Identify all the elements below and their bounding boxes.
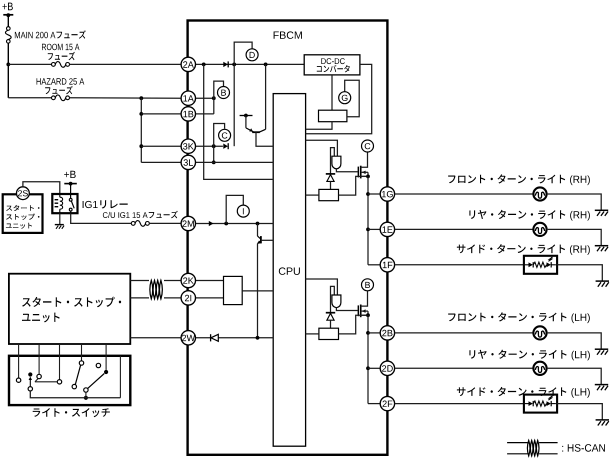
MOSFET source wire (361, 314, 368, 316)
wire regulator to CPU (306, 122, 332, 130)
wire branch to pin 3K (141, 145, 181, 147)
terminal 2A (181, 57, 195, 71)
node 3K (212, 144, 216, 148)
wire 1F to LED (395, 264, 524, 266)
label light switch (33, 408, 110, 417)
label IG1 relay (83, 200, 128, 208)
wire LED to ground (557, 404, 602, 420)
wire branch down to 3L (140, 98, 142, 162)
lamp フロント・ターン・ライト (RH) (533, 187, 546, 200)
wire hook to C (214, 124, 225, 147)
wire DC-DC output to CPU (306, 64, 372, 133)
wire 2K inside (196, 280, 224, 282)
wire resistor to source (339, 176, 367, 195)
wire resistor to CPU (306, 333, 319, 335)
transistor Q2 (257, 236, 261, 244)
wire 2D to lamp (395, 367, 534, 369)
net label C (219, 129, 231, 141)
wire 2M to CPU (196, 223, 274, 225)
wire to HAZARD fuse (8, 97, 51, 99)
switch contacts (16, 361, 100, 392)
terminal 2S (17, 187, 30, 200)
wire ROOM fuse to pin 2A (69, 63, 181, 65)
wire unit to 2K (130, 280, 181, 282)
label サイド・ターン・ライト (RH) (457, 244, 590, 255)
wire resistor to CPU (306, 194, 319, 196)
terminal 1G (380, 187, 394, 201)
wire CPU to gate driver input (306, 140, 338, 156)
switch blade B (88, 374, 105, 389)
label CPU (279, 267, 300, 275)
label リヤ・ターン・ライト (RH) (469, 210, 589, 221)
start-stop unit box (9, 274, 130, 344)
internal tap node (240, 114, 253, 118)
fuse C/U IG1 15A (103, 211, 178, 226)
node 2M-a (224, 222, 228, 226)
node output rail junction (366, 331, 370, 335)
gate driver U1 (332, 156, 341, 169)
MOSFET source wire (361, 175, 368, 177)
wire Q1 base to CPU (256, 132, 273, 146)
arrow 2M flow (209, 221, 214, 226)
wire 234 vertical to 3K diode (233, 64, 235, 146)
wire 3K inside (196, 145, 223, 147)
wire lamp to ground (547, 368, 601, 384)
gate driver U2 (332, 295, 341, 308)
fuse MAIN 200A (5, 27, 85, 43)
node branch 3K (139, 144, 143, 148)
node output rail junction (366, 366, 370, 370)
label FBCM (274, 31, 302, 39)
node 2W (256, 336, 260, 340)
ground (595, 210, 608, 216)
wire lamp to ground (547, 333, 601, 349)
wire 2I inside (196, 297, 224, 299)
wire hook to I (226, 195, 243, 223)
node 2A-c (264, 63, 268, 67)
sense resistor R2 (319, 328, 339, 339)
wire driver output to gate (336, 169, 357, 172)
label フロント・ターン・ライト (LH) (448, 312, 590, 323)
zener diode (326, 312, 335, 314)
MOSFET body arrow (362, 171, 366, 174)
wire CPU to gate driver input (306, 279, 338, 295)
wire hook to G (345, 80, 360, 116)
diode D1 (223, 61, 228, 67)
switch link (35, 379, 57, 382)
terminal 1F (380, 258, 394, 272)
MOSFET drain wire (361, 152, 368, 167)
wire 266 vertical to transistor (265, 64, 267, 129)
wire unit to 2I (130, 297, 181, 299)
wire relay switch to fuse (71, 213, 132, 223)
LED サイド・ターン・ライト (LH) (524, 395, 557, 413)
start-stop unit (2S) box (3, 194, 43, 233)
node 1A (212, 96, 216, 100)
net label B (362, 279, 374, 291)
ground (595, 385, 608, 391)
node 3L (212, 161, 216, 165)
node +B relay supply (64, 171, 77, 186)
label フロント・ターン・ライト (RH) (448, 174, 590, 185)
twisted pair HS-CAN (150, 280, 163, 299)
diode D3 (211, 334, 219, 341)
switch wiper arrow (29, 377, 32, 387)
light switch box (9, 356, 130, 405)
wire to output pin (368, 193, 380, 195)
relay coil (55, 194, 63, 213)
label リヤ・ターン・ライト (LH) (469, 350, 589, 361)
terminal 3K (181, 139, 195, 153)
wire relay coil to ground (59, 213, 61, 224)
wire 2A rail (196, 63, 305, 65)
wire main bus down (7, 43, 9, 98)
label HS-CAN (562, 444, 605, 452)
wire zener to driver input hook (331, 148, 335, 174)
terminal 2W (181, 331, 195, 345)
wire to output pin (368, 332, 380, 334)
fuse ROOM 15A (42, 44, 79, 68)
CAN transceiver box (224, 276, 243, 304)
terminal 2I (181, 291, 195, 305)
MOSFET channel bar (360, 166, 362, 179)
wire hook to B (214, 81, 224, 98)
wire 2F to LED (395, 403, 524, 405)
wire zener to resistor (330, 320, 332, 328)
net label G (339, 92, 351, 104)
net label I (237, 205, 249, 217)
ground (595, 349, 608, 355)
wire +B to relay switch (70, 184, 72, 199)
MOSFET drain wire (361, 291, 368, 306)
CPU box (273, 94, 305, 447)
lamp リヤ・ターン・ライト (RH) (533, 223, 546, 236)
switch blade A (75, 365, 80, 384)
wire switch stems (19, 344, 121, 398)
wire HAZARD fuse to pin 1A (69, 97, 181, 99)
terminal 1B (181, 107, 195, 121)
fuse HAZARD 25A (37, 78, 85, 100)
net label B (218, 87, 230, 99)
wire driver output to gate (336, 308, 357, 311)
terminal 2B (380, 326, 394, 340)
node source (366, 313, 370, 317)
regulator box (319, 110, 347, 122)
ground (595, 246, 608, 252)
wire lamp to ground (547, 229, 601, 245)
MOSFET Q2 gate bar (357, 305, 359, 316)
MOSFET Q1 gate bar (357, 167, 359, 178)
sense resistor R1 (319, 189, 339, 200)
wire unit to 2W (130, 337, 181, 339)
wire 3L to CPU (196, 161, 274, 163)
wire +B down (7, 15, 9, 26)
terminal 2F (380, 396, 394, 410)
node bus to ROOM fuse (6, 63, 10, 67)
wire resistor to source (339, 315, 367, 334)
relay switch (69, 198, 74, 213)
label サイド・ターン・ライト (LH) (457, 387, 590, 398)
output rail wire (367, 176, 369, 264)
node 2A-b (232, 63, 236, 67)
wire zener to driver input hook (331, 286, 335, 312)
wire 3K to 3L link (213, 146, 215, 162)
lamp リヤ・ターン・ライト (LH) (533, 362, 546, 375)
wire 2S to IG1 relay coil (23, 182, 60, 194)
terminal 1A (181, 91, 195, 105)
node +B battery symbol (2, 3, 13, 18)
wire hook to D (234, 42, 252, 64)
relay IG1 box (52, 194, 77, 213)
terminal 3L (181, 155, 195, 169)
wire 204 vertical to CPU (204, 64, 274, 179)
wire to ROOM fuse (8, 63, 51, 65)
MOSFET channel bar (360, 305, 362, 318)
terminal 2D (380, 361, 394, 375)
wire to output pin (368, 228, 380, 230)
wire 2M to Q2 (257, 224, 259, 237)
node 2M-b (256, 222, 260, 226)
wire 2B to lamp (395, 332, 534, 334)
ground relay (55, 225, 64, 229)
net label D (246, 49, 258, 61)
wire zener to resistor (330, 181, 332, 189)
MOSFET body arrow (362, 309, 366, 312)
lamp フロント・ターン・ライト (LH) (533, 326, 546, 339)
wire transceiver to CPU (242, 290, 273, 292)
wire lamp to ground (547, 194, 601, 210)
wire Q2 base to CPU (261, 239, 273, 241)
switch common dots (28, 370, 108, 400)
node hazard branch (139, 96, 143, 100)
wire LED to ground (557, 265, 602, 281)
wire tap to emitter (245, 116, 247, 128)
HS-CAN legend symbol (507, 441, 557, 456)
wire 1A inside (196, 97, 214, 99)
wire DC-DC to regulator (331, 75, 333, 110)
wire 1G to lamp (395, 193, 534, 195)
ground (596, 281, 609, 287)
diode D2 (223, 143, 228, 149)
wire to output pin (368, 367, 380, 369)
terminal 2K (181, 273, 195, 287)
DC-DC converter box (304, 55, 360, 75)
FBCM module box (188, 21, 388, 455)
wire 1E to lamp (395, 228, 534, 230)
zener diode (326, 173, 335, 175)
transistor Q1 (246, 128, 266, 132)
wire 1A to 1B link (213, 98, 215, 114)
wire branch to pin 1B (141, 113, 181, 115)
node 2A-a (202, 63, 206, 67)
wire fuse to pin 2M (149, 222, 181, 224)
wire branch to pin 3L (141, 161, 181, 163)
output rail wire (367, 315, 369, 403)
terminal 2M (181, 216, 195, 230)
terminal 1E (380, 222, 394, 236)
wire 1B inside (196, 113, 214, 115)
node source (366, 175, 370, 179)
net label C (362, 140, 374, 152)
node output rail junction (366, 192, 370, 196)
wire 2W to CPU (196, 337, 274, 339)
switch bus wire (30, 391, 120, 398)
ground (596, 420, 609, 426)
LED サイド・ターン・ライト (RH) (524, 256, 557, 274)
wire Q2 emitter to 2W (257, 244, 259, 338)
node output rail junction (366, 228, 370, 232)
node branch 1B (139, 112, 143, 116)
